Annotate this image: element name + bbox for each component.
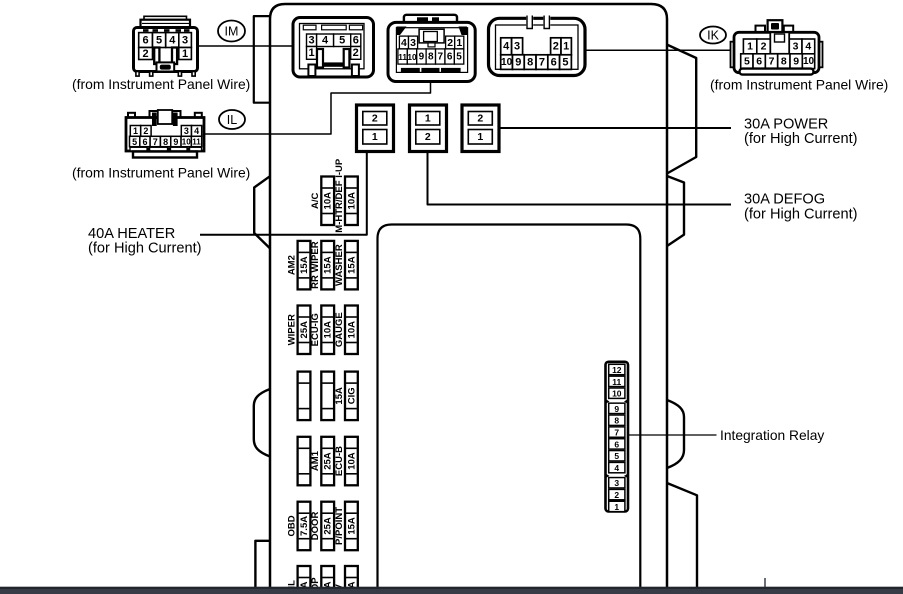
svg-text:7: 7: [539, 56, 545, 68]
svg-text:5: 5: [456, 51, 462, 62]
top connector 2 (mates IL): [388, 15, 475, 82]
svg-text:3: 3: [614, 478, 619, 488]
svg-text:10: 10: [803, 56, 815, 67]
svg-text:10: 10: [501, 57, 513, 68]
svg-text:10A: 10A: [346, 452, 357, 470]
wire IM connector to block: [198, 45, 294, 47]
fuse spare row4 col2: [321, 372, 334, 421]
svg-text:(from Instrument Panel Wire): (from Instrument Panel Wire): [72, 76, 250, 92]
svg-text:10A: 10A: [346, 321, 357, 339]
junction block left trapezoid bump: [254, 176, 270, 248]
svg-text:5: 5: [562, 56, 568, 68]
svg-text:9: 9: [419, 51, 425, 62]
label IM oval: [218, 21, 245, 42]
fuse GAUGE row3 col3: [334, 306, 358, 355]
svg-text:1: 1: [308, 47, 314, 59]
fuse AM1 row5 col2: [310, 437, 334, 486]
svg-text:P/POINT: P/POINT: [334, 507, 345, 545]
svg-text:RR WIPER: RR WIPER: [310, 241, 321, 289]
svg-text:2: 2: [761, 41, 767, 53]
fuse spare row4 col1: [298, 372, 311, 421]
svg-text:15A: 15A: [299, 256, 310, 274]
label (from Instrument Panel Wire) under IL: [72, 165, 250, 181]
label IK oval: [700, 27, 726, 44]
label (from Instrument Panel Wire) under IK: [710, 77, 888, 93]
svg-text:1: 1: [614, 502, 619, 512]
svg-text:2: 2: [353, 47, 359, 59]
fuse ECU-B row5 col3: [334, 437, 358, 486]
svg-text:2: 2: [553, 41, 559, 53]
svg-text:4: 4: [169, 34, 176, 46]
svg-text:AM2: AM2: [286, 255, 297, 275]
svg-text:3: 3: [184, 126, 189, 136]
svg-text:9: 9: [614, 404, 619, 414]
svg-text:3: 3: [793, 41, 799, 53]
label 40A HEATER: [88, 226, 202, 257]
svg-text:IM: IM: [225, 25, 239, 39]
svg-text:4: 4: [614, 463, 619, 473]
svg-text:6: 6: [614, 439, 619, 449]
svg-text:(for High Current): (for High Current): [744, 206, 858, 222]
svg-text:11: 11: [612, 377, 621, 387]
svg-text:OBD: OBD: [286, 515, 297, 536]
label IL oval: [219, 110, 245, 129]
svg-text:2: 2: [143, 126, 148, 136]
svg-text:Integration Relay: Integration Relay: [720, 428, 824, 443]
svg-text:8: 8: [614, 416, 619, 426]
label 30A DEFOG: [744, 192, 858, 223]
svg-text:9: 9: [515, 56, 521, 68]
bottom bar tick: [764, 578, 766, 587]
junction block right flange: [667, 45, 696, 174]
svg-text:AM1: AM1: [310, 450, 321, 471]
svg-text:25A: 25A: [323, 452, 334, 470]
fuse TAIL row7 col1: [286, 566, 310, 594]
svg-text:10A: 10A: [323, 321, 334, 339]
svg-text:10: 10: [182, 137, 191, 146]
svg-text:30A DEFOG: 30A DEFOG: [744, 192, 825, 208]
svg-text:2: 2: [447, 37, 453, 49]
svg-text:5: 5: [339, 35, 345, 47]
fuse OBD row6 col1: [286, 502, 310, 551]
wire Integration Relay leader: [628, 434, 717, 436]
top connector 1 (mates IM): [293, 18, 374, 78]
high current block 30A DEFOG: [410, 105, 447, 152]
fuse A/C row1 col2: [310, 177, 334, 226]
svg-text:ECU-B: ECU-B: [334, 446, 345, 476]
svg-text:8: 8: [163, 137, 168, 147]
high current block 30A POWER: [462, 105, 499, 152]
svg-text:2: 2: [425, 131, 431, 143]
svg-text:6: 6: [142, 137, 147, 147]
fuse RR WIPER row2 col2: [310, 241, 334, 290]
junction block outline: [270, 4, 667, 587]
svg-text:15A: 15A: [334, 387, 345, 405]
top connector 3 (mates IK): [489, 15, 586, 75]
junction block right bottom step: [667, 483, 697, 587]
svg-text:GAUGE: GAUGE: [334, 312, 345, 347]
svg-text:2: 2: [143, 48, 149, 60]
connector IL: [126, 110, 204, 158]
svg-text:2: 2: [614, 490, 619, 500]
svg-text:6: 6: [551, 56, 557, 68]
label Integration Relay: [720, 428, 824, 443]
integration relay connector strip: [606, 362, 629, 512]
fuse spare row5 col1: [298, 437, 311, 486]
svg-text:30A POWER: 30A POWER: [744, 116, 828, 132]
label (from Instrument Panel Wire) under IM: [72, 76, 250, 92]
fuse STOP row7 col2: [310, 566, 334, 594]
svg-text:2: 2: [372, 113, 378, 125]
svg-text:5: 5: [744, 56, 750, 68]
svg-text:5: 5: [614, 451, 619, 461]
svg-text:10A: 10A: [323, 192, 334, 210]
svg-text:6: 6: [143, 34, 149, 46]
svg-text:11: 11: [192, 137, 201, 146]
svg-text:3: 3: [182, 34, 188, 46]
junction block left bottom step: [255, 541, 270, 587]
junction block right rounded bump: [667, 400, 684, 468]
svg-text:6: 6: [756, 56, 762, 68]
svg-text:4: 4: [194, 126, 199, 136]
svg-text:4: 4: [401, 37, 407, 49]
svg-text:1: 1: [133, 126, 138, 136]
svg-text:1: 1: [372, 131, 378, 143]
svg-text:4: 4: [503, 41, 510, 53]
svg-text:15A: 15A: [346, 517, 357, 535]
high current block 40A HEATER: [357, 105, 394, 152]
wire 30A POWER leader: [499, 127, 731, 129]
fuse M-HTR/DEF I-UP row1 col3: [334, 158, 358, 233]
inner cover outline: [378, 225, 641, 594]
svg-text:(for High Current): (for High Current): [744, 131, 858, 147]
svg-text:7.5A: 7.5A: [299, 516, 310, 536]
fuse AM2 row2 col1: [286, 241, 310, 290]
svg-text:8: 8: [781, 56, 787, 68]
svg-text:7: 7: [769, 56, 775, 68]
svg-text:3: 3: [514, 41, 520, 53]
wire 40A HEATER leader: [200, 152, 367, 235]
svg-text:DOOR: DOOR: [310, 512, 321, 541]
svg-text:3: 3: [308, 35, 314, 47]
svg-text:9: 9: [793, 56, 799, 68]
svg-text:1: 1: [563, 41, 569, 53]
junction block left flange tab: [254, 16, 270, 103]
junction block right trapezoid bump: [667, 176, 684, 246]
fuse DOOR row6 col2: [310, 502, 334, 551]
junction block left rounded bump: [254, 389, 270, 457]
svg-text:(from Instrument Panel Wire): (from Instrument Panel Wire): [710, 77, 888, 93]
label 30A POWER: [744, 116, 858, 147]
svg-text:A/C: A/C: [310, 192, 321, 209]
svg-text:IL: IL: [227, 113, 237, 127]
svg-text:5: 5: [132, 137, 137, 147]
fuse WASHER row2 col3: [334, 241, 358, 290]
bottom dark bar: [0, 587, 903, 594]
connector IM: [134, 16, 198, 76]
svg-text:9: 9: [173, 137, 178, 147]
svg-text:15A: 15A: [346, 256, 357, 274]
svg-text:(from Instrument Panel Wire): (from Instrument Panel Wire): [72, 165, 250, 181]
svg-text:1: 1: [747, 41, 753, 53]
svg-text:25A: 25A: [299, 321, 310, 339]
svg-text:M-HTR/DEF I-UP: M-HTR/DEF I-UP: [334, 158, 345, 233]
svg-text:5: 5: [156, 34, 162, 46]
svg-text:1: 1: [456, 37, 462, 49]
svg-text:(for High Current): (for High Current): [88, 241, 202, 257]
svg-text:6: 6: [353, 35, 359, 47]
svg-text:1: 1: [425, 113, 431, 125]
svg-text:12: 12: [612, 365, 622, 375]
svg-text:CIG: CIG: [346, 387, 357, 404]
svg-text:8: 8: [428, 51, 434, 62]
svg-text:WASHER: WASHER: [334, 244, 345, 286]
svg-text:1: 1: [477, 131, 483, 143]
svg-text:10: 10: [407, 52, 417, 62]
svg-text:25A: 25A: [323, 517, 334, 535]
connector IK: [731, 20, 823, 74]
svg-text:8: 8: [527, 56, 533, 68]
svg-text:IK: IK: [707, 29, 719, 43]
svg-text:11: 11: [398, 52, 407, 62]
fuse ECU-IG row3 col2: [310, 306, 334, 355]
svg-text:2: 2: [477, 113, 483, 125]
svg-text:1: 1: [182, 48, 188, 60]
svg-text:3: 3: [410, 37, 416, 49]
wire top connector 3 to IK connector: [585, 49, 734, 51]
wire IL connector to top connector 2: [204, 82, 431, 135]
svg-text:4: 4: [322, 35, 329, 47]
svg-text:40A HEATER: 40A HEATER: [88, 226, 175, 242]
wire 30A DEFOG leader: [428, 152, 732, 205]
fuse WIPER row3 col1: [286, 306, 310, 355]
svg-text:7: 7: [437, 51, 443, 62]
fuse 15A row4 col3: [334, 372, 358, 421]
svg-text:ECU-IG: ECU-IG: [310, 313, 321, 346]
svg-text:WIPER: WIPER: [286, 314, 297, 345]
svg-text:7: 7: [614, 427, 619, 437]
svg-text:10A: 10A: [346, 192, 357, 210]
fuse P/POINT row6 col3: [334, 502, 358, 551]
fuse TV row7 col3: [334, 566, 358, 594]
svg-text:4: 4: [805, 41, 811, 53]
svg-text:15A: 15A: [323, 256, 334, 274]
svg-text:10: 10: [612, 389, 622, 399]
svg-text:6: 6: [447, 51, 453, 62]
svg-text:7: 7: [153, 137, 158, 147]
